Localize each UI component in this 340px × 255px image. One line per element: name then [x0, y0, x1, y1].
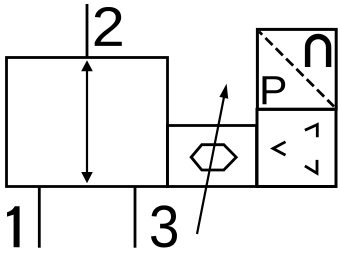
dashed diagonal — [259, 32, 334, 107]
chevron south-east — [305, 160, 317, 173]
chevron west — [273, 142, 286, 155]
wire port 1 stub — [38, 187, 41, 248]
display box U1 — [257, 29, 336, 109]
chevron north-east — [305, 125, 317, 138]
wire port 3 stub — [134, 187, 137, 248]
adjustment arrow — [197, 84, 228, 234]
wire port 2 line — [86, 4, 89, 58]
pilot box — [167, 126, 256, 187]
hexagon (pneumatic pilot symbol) — [191, 145, 236, 170]
valve body (pressure regulator) — [7, 58, 168, 187]
node 3 label — [151, 205, 177, 247]
internal flow double arrow — [81, 60, 93, 183]
controller box — [257, 109, 336, 186]
node 1 label — [7, 206, 20, 247]
display arch symbol — [308, 37, 329, 68]
node 2 label — [95, 7, 122, 46]
P label — [263, 76, 286, 104]
